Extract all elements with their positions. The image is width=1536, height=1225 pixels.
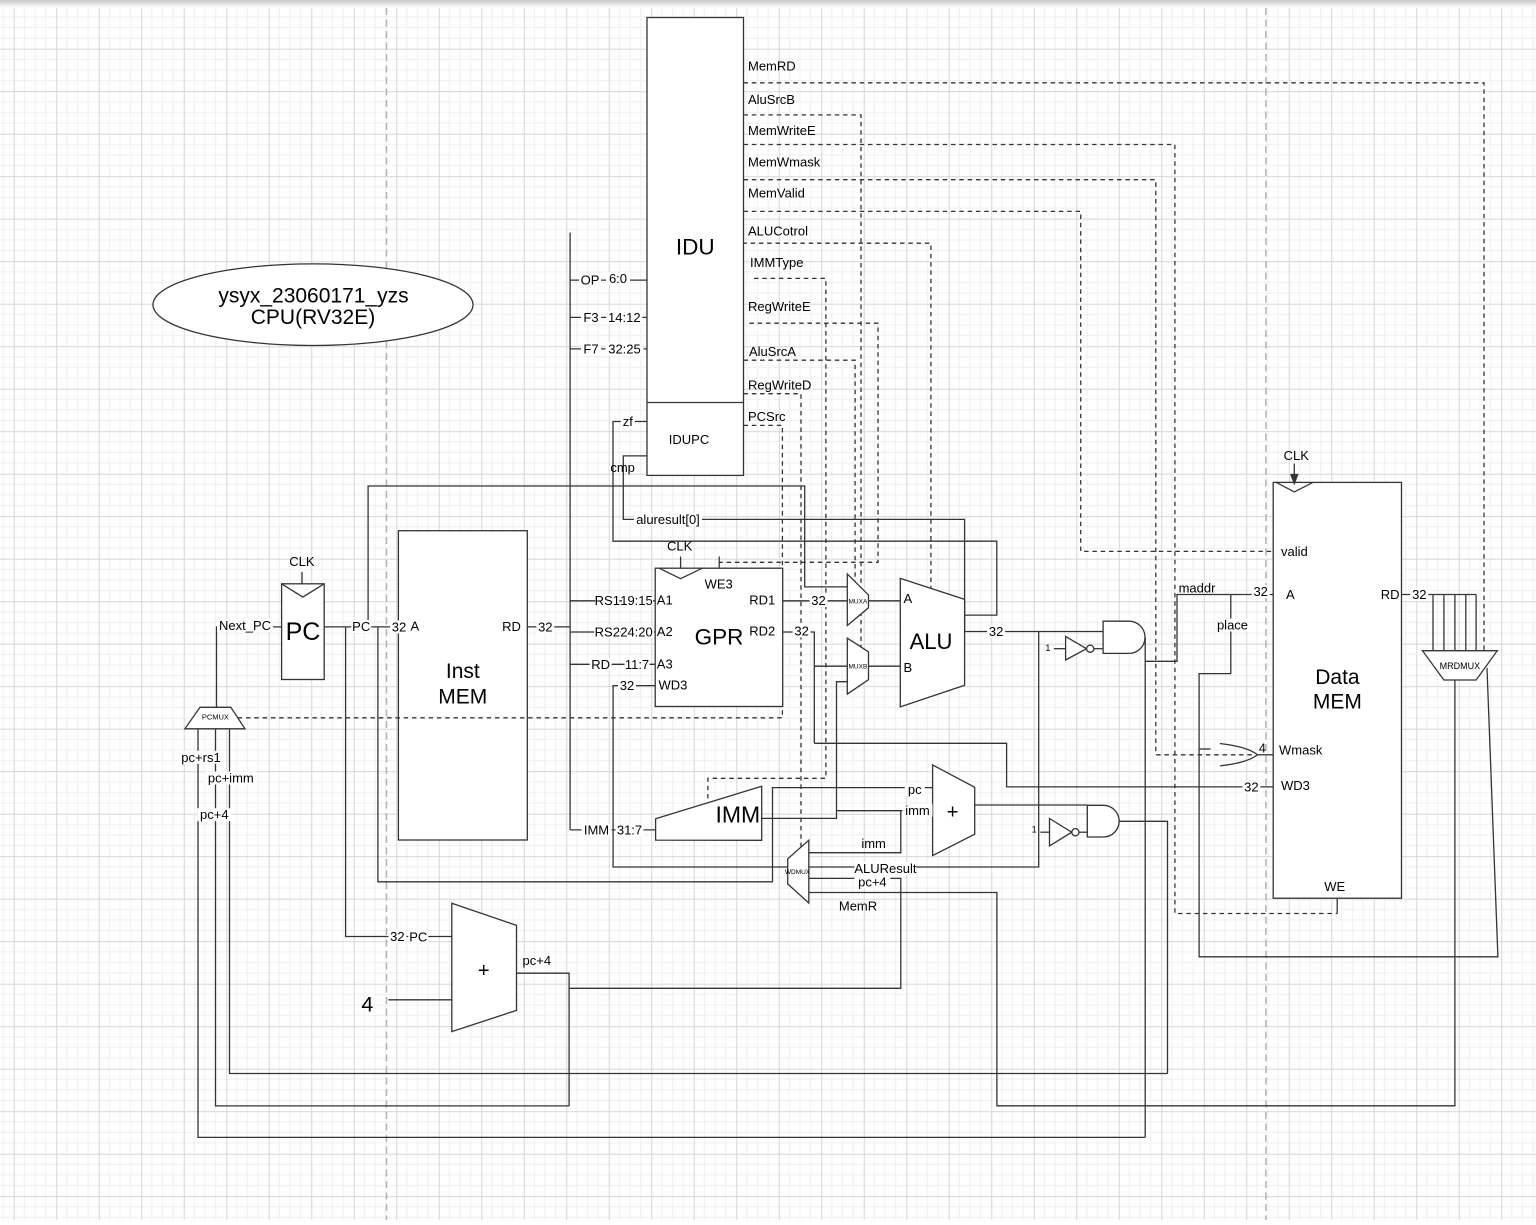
svg-text:place: place (1217, 618, 1248, 633)
label 32:25 (606, 341, 644, 356)
svg-text:maddr: maddr (1179, 581, 1217, 596)
wire pc+4 adder output down (517, 973, 570, 1106)
svg-text:4: 4 (1259, 742, 1266, 756)
clock notch PC (282, 584, 325, 597)
svg-text:+: + (478, 960, 490, 982)
label 32 at RD2 (793, 623, 811, 638)
wire RD2 down (783, 632, 815, 743)
wmask crescent shape (1220, 744, 1258, 766)
wire IMM extender output up to MUXB (762, 682, 848, 819)
mux MUXA (847, 574, 868, 626)
svg-text:RegWriteD: RegWriteD (748, 378, 811, 393)
page separator (gray dashed) right (1265, 8, 1267, 1220)
svg-text:F7: F7 (583, 341, 598, 356)
svg-text:cmp: cmp (610, 460, 635, 475)
svg-text:32: 32 (538, 619, 552, 634)
svg-text:PC: PC (409, 929, 427, 944)
svg-text:32: 32 (1253, 584, 1267, 599)
wire imm branch to WDMUX (809, 811, 901, 853)
svg-text:PCMUX: PCMUX (202, 712, 229, 721)
label 32 at Data WD3 (1242, 779, 1260, 794)
svg-text:32: 32 (1244, 779, 1258, 794)
label 32 at +4 adder (388, 929, 406, 944)
svg-text:IDUPC: IDUPC (669, 432, 709, 447)
svg-text:AluSrcA: AluSrcA (749, 344, 796, 359)
wire Inst MEM RD to bus (527, 626, 570, 628)
label PC at +4 adder (408, 929, 428, 944)
svg-text:MUXA: MUXA (849, 599, 868, 606)
svg-text:A3: A3 (657, 657, 673, 672)
label 31:7 (616, 823, 644, 838)
label 11:7 (625, 657, 650, 672)
label F3 (581, 310, 601, 325)
svg-text:OP: OP (581, 273, 600, 288)
svg-text:Inst: Inst (446, 660, 480, 683)
svg-text:WE: WE (1324, 879, 1345, 894)
wire AND1 output down to pc+rs1 line (1144, 637, 1146, 1137)
svg-text:RS1: RS1 (595, 593, 620, 608)
wire MemR from MRDMUX to WDMUX (809, 680, 1455, 1106)
alu U1 (900, 578, 964, 707)
wire adder pc+imm output to AND2 (975, 804, 1088, 806)
wire RS2 tap (570, 631, 655, 633)
svg-text:WD3: WD3 (659, 678, 688, 693)
wire F3 tap (570, 316, 647, 318)
wire pc branch up to MUXA (368, 486, 847, 627)
svg-text:Wmask: Wmask (1279, 743, 1323, 758)
block PC (282, 584, 325, 680)
label 32 at ALU out (987, 624, 1005, 639)
svg-text:zf: zf (623, 414, 634, 429)
svg-text:aluresult[0]: aluresult[0] (636, 512, 700, 527)
inverter NOT2 (1050, 819, 1072, 846)
wire NOT1 to AND1 (1094, 648, 1103, 650)
svg-text:GPR: GPR (695, 625, 744, 650)
label RS2 (594, 625, 620, 640)
svg-text:6:0: 6:0 (609, 271, 627, 286)
block Data MEM (1273, 482, 1401, 898)
label imm at adder (903, 803, 933, 818)
svg-text:11:7: 11:7 (625, 657, 649, 672)
wire AluSrcB control dashed (744, 115, 862, 647)
svg-text:F3: F3 (583, 310, 598, 325)
label 24:20 (620, 625, 654, 640)
wire place tick (1199, 748, 1210, 750)
label aluresult[0] (634, 512, 702, 527)
svg-text:MEM: MEM (1313, 691, 1362, 714)
label 32 at Inst A (390, 619, 408, 634)
block IMM sign extender (656, 786, 762, 840)
label pc+imm (205, 771, 257, 786)
wire pc branch down to +4 adder (346, 627, 452, 937)
label ALUResult (854, 861, 917, 876)
wire Next_PC from PCMUX to PC (217, 627, 282, 707)
svg-text:32:25: 32:25 (608, 341, 641, 356)
svg-text:RegWriteE: RegWriteE (748, 299, 811, 314)
svg-text:32: 32 (390, 929, 404, 944)
svg-text:4: 4 (361, 992, 373, 1016)
wire pc+imm return to PCMUX (216, 729, 570, 1106)
wire MemWriteE control dashed (744, 145, 1338, 914)
label zf (621, 414, 635, 429)
wire RD bus line 1 (1432, 595, 1434, 651)
page separator (gray dashed) left (386, 8, 388, 1220)
svg-text:MemWriteE: MemWriteE (748, 123, 816, 138)
and gate AND1 (1103, 621, 1145, 653)
wire GPR CLK tick (680, 557, 682, 569)
svg-text:A: A (904, 591, 913, 606)
label IMM tap (582, 823, 612, 838)
svg-text:WDMUX: WDMUX (785, 869, 811, 876)
block IDUPC divider (647, 402, 744, 404)
svg-text:pc+4: pc+4 (858, 875, 887, 890)
svg-text:1: 1 (1032, 825, 1037, 835)
label 32 at RD1 (810, 593, 828, 608)
svg-text:MRDMUX: MRDMUX (1440, 661, 1481, 671)
svg-text:Next_PC: Next_PC (219, 618, 271, 633)
svg-text:24:20: 24:20 (620, 625, 653, 640)
wire ALUResult down to WDMUX (809, 632, 1039, 868)
svg-text:32: 32 (794, 623, 808, 638)
svg-text:MemValid: MemValid (748, 185, 805, 200)
svg-text:MUXB: MUXB (849, 663, 868, 670)
label Next_PC (217, 618, 273, 633)
wire AND2 output down (1119, 821, 1167, 1073)
svg-text:RS2: RS2 (595, 625, 620, 640)
wire MUXA out to ALU A (869, 600, 901, 602)
wire NOT1 input stub (1054, 648, 1066, 650)
wire RegWriteD control dashed (744, 394, 802, 847)
adder pc+4 (452, 903, 517, 1031)
wire ALU output to AND1 (965, 631, 1104, 633)
svg-text:32: 32 (811, 593, 825, 608)
svg-text:1: 1 (1045, 643, 1050, 653)
wire constant 4 into +4 adder (389, 999, 452, 1001)
label 14:12 (606, 310, 642, 325)
wire Data MEM RD bus (1402, 594, 1477, 596)
svg-text:PC: PC (352, 619, 370, 634)
inverter NOT2 bubble (1072, 829, 1079, 836)
svg-text:MemRD: MemRD (748, 59, 796, 74)
wire NOT2 to AND2 (1079, 831, 1087, 833)
wire PCSrc control dashed vertical (744, 425, 783, 717)
label RS1 (595, 593, 620, 608)
clock notch GPR (659, 568, 702, 579)
label RD tap (590, 657, 612, 672)
svg-text:RD: RD (1381, 587, 1400, 602)
wire AluSrcA control dashed (744, 360, 856, 582)
wire NOT2 input stub (1040, 831, 1049, 833)
svg-text:+: + (947, 802, 959, 824)
svg-text:IDU: IDU (676, 234, 715, 259)
wire RD bus line 4 (1465, 595, 1467, 651)
mux MUXB (847, 638, 868, 694)
svg-text:32: 32 (392, 619, 406, 634)
svg-text:32: 32 (989, 624, 1003, 639)
wire imm to adder (837, 810, 933, 812)
label pc+4 at WDMUX (854, 875, 890, 890)
wire MUXB out to ALU B (869, 665, 901, 667)
svg-text:14:12: 14:12 (608, 310, 641, 325)
adder pc+imm (933, 765, 975, 856)
svg-text:RD1: RD1 (749, 592, 775, 607)
wire PCSrc control dashed horizontal to PCMUX (238, 717, 783, 719)
svg-text:ALUCotrol: ALUCotrol (748, 223, 808, 238)
block GPR (655, 568, 783, 706)
svg-text:A: A (410, 619, 419, 634)
label pc+rs1 (177, 750, 225, 765)
wire OP tap (570, 279, 647, 281)
svg-text:MemWmask: MemWmask (748, 155, 821, 170)
wire GPR WE3 tick (718, 557, 720, 569)
svg-text:RD2: RD2 (749, 624, 775, 639)
svg-text:32: 32 (620, 678, 634, 693)
wire RD tap (570, 663, 655, 665)
svg-text:IMM: IMM (715, 802, 760, 828)
svg-text:19:15: 19:15 (620, 593, 653, 608)
svg-text:pc+imm: pc+imm (208, 771, 254, 786)
label OP (579, 273, 601, 288)
svg-text:imm: imm (861, 836, 886, 851)
label 32 at Inst RD (536, 619, 554, 634)
svg-text:A1: A1 (657, 592, 673, 607)
svg-text:pc+4: pc+4 (523, 953, 552, 968)
wire RegWriteE control dashed (719, 323, 878, 562)
svg-text:PC: PC (286, 618, 321, 646)
label 19:15 (620, 593, 653, 608)
svg-text:A: A (1286, 587, 1295, 602)
wire pc+4 return to PCMUX (230, 729, 1168, 1074)
wire RD2 to MUXB (814, 665, 847, 667)
wire Data MEM WE tick (1336, 898, 1338, 913)
label 32 at Data RD (1410, 587, 1428, 602)
svg-text:CLK: CLK (667, 538, 693, 553)
wire ALUCotrol control dashed (742, 243, 931, 588)
wire MemValid control dashed (744, 211, 1274, 551)
wire Data MEM CLK line (1293, 464, 1295, 478)
wire RD1 to MUXA (783, 600, 848, 602)
wire WDMUX output to GPR WD3 (613, 686, 788, 867)
label pc at adder (905, 782, 925, 797)
wire PC output to Inst MEM A (324, 626, 398, 628)
wire pc branch down to pc+imm adder (378, 627, 933, 882)
wire cmp aluresult[0] from ALU output to IDUPC (623, 456, 964, 632)
wire RD2 store data to Data MEM WD3 (814, 743, 1273, 787)
svg-text:CPU(RV32E): CPU(RV32E) (251, 306, 375, 329)
wire Wmask solid stub into Data MEM (1258, 754, 1274, 756)
wire instruction bus vertical (569, 233, 571, 830)
svg-text:ysyx_23060171_yzs: ysyx_23060171_yzs (218, 284, 408, 307)
wire IMM tap (570, 829, 656, 831)
wire RD bus line 5 (1475, 595, 1477, 651)
svg-text:RD: RD (591, 657, 610, 672)
inverter NOT1 (1066, 636, 1087, 660)
wire pc+4 to WDMUX (569, 878, 901, 988)
svg-text:PCSrc: PCSrc (748, 409, 786, 424)
mux WDMUX (788, 840, 809, 903)
label 32 at Data MEM A (1252, 584, 1270, 599)
svg-text:MemR: MemR (839, 899, 877, 914)
block IDU (647, 18, 744, 476)
svg-text:pc+rs1: pc+rs1 (181, 750, 220, 765)
svg-text:IMM: IMM (584, 823, 609, 838)
title ellipse ysyx CPU (153, 264, 473, 346)
label F7 (581, 341, 601, 356)
svg-text:32: 32 (1412, 587, 1426, 602)
mux PCMUX (185, 707, 245, 729)
label 6:0 (606, 271, 630, 286)
wire MemRD control dashed (744, 83, 1485, 650)
wire MemWmask control dashed (744, 180, 1254, 755)
inverter NOT1 bubble (1087, 645, 1094, 652)
label pc+4 PCMUX (197, 807, 231, 822)
svg-text:Data: Data (1315, 666, 1360, 689)
svg-text:31:7: 31:7 (617, 823, 642, 838)
svg-text:CLK: CLK (289, 554, 315, 569)
svg-text:pc: pc (908, 782, 922, 797)
wire AND1 output branch maddr to Data MEM A (1145, 595, 1273, 662)
wire F7 tap (570, 348, 647, 350)
wire PC CLK tick (301, 572, 303, 584)
wire RD bus line 3 (1454, 595, 1456, 651)
svg-text:B: B (904, 660, 913, 675)
svg-text:pc+4: pc+4 (200, 807, 229, 822)
block Inst MEM (398, 531, 527, 840)
svg-text:AluSrcB: AluSrcB (748, 92, 795, 107)
svg-text:WE3: WE3 (705, 577, 733, 592)
svg-text:CLK: CLK (1284, 448, 1310, 463)
svg-text:A2: A2 (657, 624, 673, 639)
mux MRDMUX (1423, 651, 1498, 680)
clock notch Data MEM (1276, 482, 1313, 492)
wire zf from ALU to IDUPC (613, 422, 997, 616)
svg-text:WD3: WD3 (1281, 778, 1310, 793)
svg-text:MEM: MEM (438, 686, 487, 709)
clock arrowhead Data MEM (1291, 475, 1298, 484)
svg-text:ALU: ALU (910, 629, 953, 654)
svg-text:RD: RD (502, 619, 521, 634)
and gate AND2 (1087, 805, 1119, 837)
wire RS1 tap (570, 600, 655, 602)
wire IMMType control dashed (708, 278, 826, 802)
svg-text:valid: valid (1281, 544, 1308, 559)
svg-text:imm: imm (905, 803, 930, 818)
wire place from maddr to MRDMUX (1199, 595, 1498, 957)
svg-text:IMMType: IMMType (750, 255, 803, 270)
label 32 at GPR WD3 (618, 678, 636, 693)
label place (1216, 618, 1250, 633)
wire RD bus line 2 (1443, 595, 1445, 651)
wire pc+rs1 return to PCMUX (198, 729, 1145, 1138)
label PC on wire (351, 619, 371, 634)
